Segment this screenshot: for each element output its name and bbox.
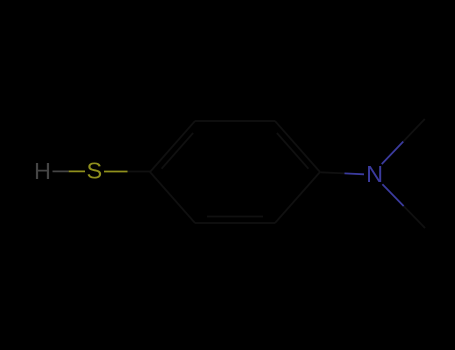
bond N-CH3 upper half near N — [382, 142, 404, 165]
bond H-S half near H — [53, 170, 69, 172]
bond C4-N half near N — [345, 172, 365, 175]
bond N-CH3 lower half near N — [382, 184, 403, 206]
benzene ring edge C2-C3 — [195, 120, 275, 122]
bond S-C1 half near C1 — [128, 171, 151, 173]
double bond inner line C5-C6 — [207, 216, 263, 218]
svg-text:S: S — [86, 157, 102, 183]
bond H-S half near S — [69, 170, 85, 172]
benzene ring edge C4-C5 — [275, 172, 320, 223]
svg-text:H: H — [34, 158, 51, 184]
svg-text:N: N — [366, 161, 383, 187]
benzene ring edge C6-C1 — [150, 172, 195, 223]
benzene ring edge C5-C6 — [195, 222, 275, 224]
bond N-CH3 upper half near CH3 — [403, 119, 425, 142]
double bond inner line C1-C2 — [162, 133, 194, 169]
bond S-C1 half near S — [104, 171, 128, 173]
bond N-CH3 lower half near CH3 — [404, 206, 425, 228]
double bond inner line C3-C4 — [277, 133, 309, 169]
benzene ring edge C3-C4 — [275, 121, 320, 172]
bond C4-N half near C4 — [321, 172, 345, 173]
benzene ring edge C1-C2 — [150, 121, 195, 172]
